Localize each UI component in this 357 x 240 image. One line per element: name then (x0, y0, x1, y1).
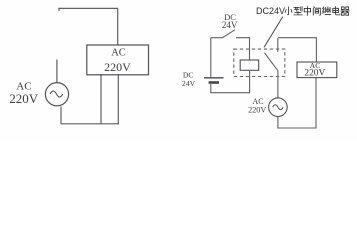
wire: right box bottom loop (278, 78, 316, 128)
wire: contact fixed terminal (277, 38, 279, 52)
glyph 型 (294, 7, 302, 15)
svg-text:24V: 24V (182, 79, 196, 88)
wire: top rail to right box (278, 38, 317, 63)
glyph 小 (285, 7, 292, 15)
glyph 器 (341, 7, 349, 15)
svg-text:DC: DC (183, 70, 194, 79)
svg-text:220V: 220V (304, 68, 325, 78)
wire: box bottom right lead (117, 74, 119, 124)
right load box AC 220V (297, 62, 337, 78)
svg-text:220V: 220V (9, 91, 39, 106)
sine wave inside G2 (273, 105, 283, 110)
wire: box bottom left lead (100, 74, 102, 124)
sine wave inside G1 (50, 91, 63, 97)
wire: bottom horizontal (61, 123, 119, 125)
svg-text:220V: 220V (248, 105, 266, 114)
wire: switch right segment to corner (236, 38, 250, 60)
glyph 继 (322, 7, 330, 15)
wire: from source bottom to bottom rail (60, 107, 62, 124)
load box AC 220V (87, 45, 149, 75)
glyph 电 (333, 7, 340, 15)
glyph 间 (313, 7, 320, 15)
svg-text:24V: 24V (222, 20, 238, 30)
wire: right vertical into box top (117, 8, 119, 44)
wire: battery minus down and right to coil (211, 71, 250, 93)
wire: contact bottom to AC source top (277, 70, 279, 98)
AC source G2 (269, 98, 288, 117)
battery B1 plates (204, 77, 224, 79)
svg-text:220V: 220V (104, 60, 131, 74)
AC source G1 (45, 83, 68, 106)
svg-text:AC: AC (111, 47, 126, 58)
relay coil box (240, 60, 259, 70)
relay contact blade (265, 53, 278, 71)
switch S blade (223, 30, 236, 38)
pointer line from title to contact (264, 17, 283, 48)
wire: stub above AC source (56, 60, 58, 84)
wire: top horizontal (59, 8, 118, 11)
relay dashed outline K (234, 49, 285, 76)
wire: left vertical to battery (210, 38, 212, 78)
wire: switch left segment (211, 37, 223, 39)
glyph 中 (304, 7, 310, 16)
svg-text:DC24V: DC24V (256, 6, 285, 16)
